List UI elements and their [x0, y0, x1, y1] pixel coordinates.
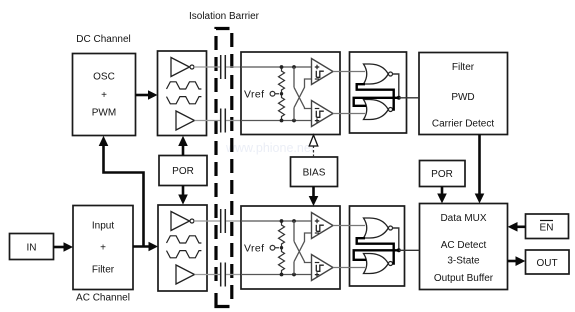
- resistor R1: [279, 67, 285, 94]
- wire G1 output to node Q1: [393, 74, 401, 100]
- port EN: [526, 214, 569, 239]
- wire AC receiver input rail bottom: [241, 274, 312, 276]
- block AC receiver: [241, 206, 340, 289]
- node junction dots AC receiver: [280, 219, 296, 276]
- block Input+Filter: [73, 206, 133, 290]
- svg-text:AC Channel: AC Channel: [76, 293, 130, 304]
- svg-text:+: +: [100, 243, 106, 254]
- wire cross-couple AC: [294, 221, 312, 275]
- arrow Data MUX to OUT: [508, 256, 526, 266]
- block POR right: [420, 161, 466, 187]
- svg-text:www.phione.net: www.phione.net: [225, 141, 315, 155]
- wire riser to OSC+PWM with arrow: [99, 136, 144, 248]
- port IN: [10, 234, 54, 260]
- wire OSC+PWM to DC transmitter with arrow: [136, 90, 158, 100]
- isolation barrier dashed line right: [230, 33, 233, 301]
- svg-text:EN: EN: [540, 223, 554, 234]
- svg-text:Filter: Filter: [92, 265, 115, 276]
- wire feedback G4 out to G3 in: [357, 238, 394, 263]
- wire DC receiver input rail bottom: [241, 120, 312, 122]
- inverter A3: [171, 212, 194, 231]
- svg-text:Data MUX: Data MUX: [440, 213, 486, 224]
- capacitor C2: [195, 109, 242, 133]
- block DC latch: [350, 52, 407, 133]
- svg-text:Carrier Detect: Carrier Detect: [432, 119, 494, 130]
- block POR top: [159, 156, 207, 186]
- wire U1 out to latch: [333, 71, 365, 73]
- wire AC receiver input rail top: [241, 220, 312, 222]
- wire IN to Input+Filter with arrow: [54, 242, 74, 252]
- svg-text:Input: Input: [92, 221, 114, 232]
- svg-text:Isolation Barrier: Isolation Barrier: [189, 11, 260, 22]
- NOR gate G3: [364, 218, 393, 238]
- svg-text:DC Channel: DC Channel: [76, 34, 130, 45]
- comparator U4: [312, 255, 334, 281]
- Vref terminal AC: [244, 242, 279, 254]
- isolation barrier dashed line left: [216, 29, 230, 307]
- block BIAS: [291, 157, 338, 187]
- buffer A4: [176, 265, 195, 284]
- svg-text:+: +: [101, 90, 107, 101]
- wire feedback Q2 to G4 in: [354, 250, 399, 259]
- label AC Channel: [76, 293, 130, 304]
- svg-text:PWM: PWM: [92, 108, 116, 119]
- wire G3 output to node Q2: [393, 228, 401, 252]
- svg-text:IN: IN: [27, 243, 37, 254]
- block Data MUX: [420, 204, 508, 290]
- port OUT: [526, 250, 570, 274]
- svg-text:Vref: Vref: [244, 88, 264, 100]
- svg-text:3-State: 3-State: [447, 256, 480, 267]
- label DC Channel: [76, 34, 130, 45]
- arrow POR right down to Data MUX: [437, 187, 447, 204]
- block OSC+PWM: [73, 54, 136, 136]
- wire cross-couple DC: [294, 67, 312, 121]
- wire U4 out to latch: [333, 267, 365, 269]
- Vref terminal DC: [244, 88, 279, 100]
- svg-text:BIAS: BIAS: [303, 168, 326, 179]
- node junction dots DC receiver: [280, 65, 296, 122]
- label Isolation Barrier: [189, 11, 260, 22]
- resistor R2: [279, 94, 285, 121]
- waveform symbol W1: [167, 82, 202, 104]
- NOR gate G2: [364, 100, 393, 120]
- wire Filter down to Data MUX with arrow: [475, 135, 485, 204]
- NOR gate G1: [364, 64, 393, 84]
- wire node Q2 to Data MUX: [399, 249, 420, 251]
- buffer A2: [176, 111, 195, 130]
- comparator U2: [312, 101, 334, 127]
- watermark: [225, 141, 315, 155]
- svg-text:Output Buffer: Output Buffer: [434, 273, 494, 284]
- svg-text:PWD: PWD: [451, 92, 474, 103]
- block AC latch: [350, 206, 405, 286]
- wire U2 out to latch: [333, 113, 365, 115]
- arrow POR down to AC transmitter: [178, 186, 188, 205]
- block DC receiver: [241, 52, 340, 135]
- svg-text:AC Detect: AC Detect: [441, 240, 487, 251]
- svg-text:Vref: Vref: [244, 242, 264, 254]
- arrow POR up to DC transmitter: [178, 136, 188, 156]
- NOR gate G4: [364, 254, 393, 274]
- arrow BIAS down to AC receiver: [309, 187, 319, 207]
- arrow BIAS up hollow: [309, 135, 318, 157]
- block AC transmitter: [158, 205, 207, 291]
- block DC transmitter: [158, 51, 207, 136]
- svg-text:OUT: OUT: [536, 258, 557, 269]
- svg-text:POR: POR: [172, 166, 194, 177]
- waveform symbol W2: [167, 236, 202, 258]
- resistor R3: [279, 221, 285, 248]
- block Filter PWD Carrier Detect: [419, 53, 508, 135]
- svg-text:Filter: Filter: [452, 62, 475, 73]
- resistor R4: [279, 248, 285, 275]
- capacitor C4: [195, 263, 242, 287]
- wire node Q1 to Filter block: [399, 97, 419, 99]
- comparator U1: [312, 59, 334, 85]
- svg-text:POR: POR: [431, 169, 453, 180]
- svg-text:OSC: OSC: [93, 72, 115, 83]
- wire DC receiver input rail top: [241, 66, 312, 68]
- wire feedback G2 out to G1 in: [357, 84, 394, 109]
- arrow EN to Data MUX: [508, 222, 526, 232]
- capacitor C3: [194, 209, 241, 233]
- inverter A1: [171, 58, 194, 77]
- capacitor C1: [194, 55, 241, 79]
- wire Input+Filter to AC transmitter with arrow: [133, 242, 158, 252]
- wire U3 out to latch: [333, 225, 365, 227]
- wire feedback Q1 to G2 in: [354, 98, 399, 106]
- comparator U3: [312, 213, 334, 239]
